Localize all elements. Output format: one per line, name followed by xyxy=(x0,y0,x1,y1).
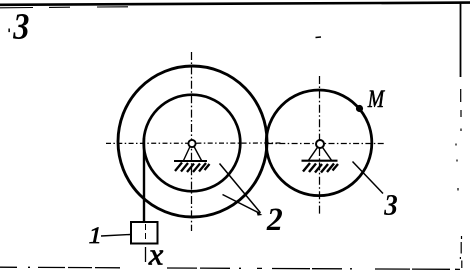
problem number 3 xyxy=(13,14,29,39)
centerline dash below block xyxy=(145,247,147,262)
left pulley vertical centerline xyxy=(191,52,193,231)
top border thin echo line xyxy=(0,7,128,8)
wheel 3 circle xyxy=(266,90,372,196)
right support hatching xyxy=(303,163,338,173)
label M xyxy=(368,91,386,108)
right circle vertical centerline xyxy=(319,76,321,216)
left support base line xyxy=(174,160,207,162)
left pulley horizontal centerline xyxy=(106,142,282,144)
pulley outer circle 2 xyxy=(118,66,267,217)
label x xyxy=(149,251,164,265)
label 3 xyxy=(384,195,397,215)
left support hatching xyxy=(175,163,210,173)
leader line from outer circle to label 2 xyxy=(223,195,260,214)
right border broken dashes xyxy=(456,89,462,268)
top border line xyxy=(0,3,470,5)
right circle horizontal centerline xyxy=(267,143,385,145)
leader line to label 3 xyxy=(353,162,384,194)
string / cord xyxy=(143,138,145,223)
stray dash above right circle xyxy=(316,36,322,39)
pulley inner circle 2 xyxy=(144,95,241,192)
load block 1 xyxy=(131,222,158,244)
right support pin xyxy=(316,140,324,148)
left support legs xyxy=(184,147,202,161)
label 1 xyxy=(90,228,100,244)
leader line to label 1 xyxy=(101,235,130,237)
block centerline dash inside xyxy=(145,224,147,242)
point M dot xyxy=(356,105,363,112)
bottom dashed border line xyxy=(0,267,460,269)
right support base line xyxy=(302,160,338,162)
leader line from inner circle to label 2 xyxy=(220,164,261,213)
right border line xyxy=(460,3,462,77)
right support legs xyxy=(309,147,332,160)
ink speck near 3 xyxy=(8,29,10,33)
label 2 xyxy=(267,209,283,231)
left support pin xyxy=(188,140,195,147)
arrowhead at label 2 xyxy=(256,211,262,216)
